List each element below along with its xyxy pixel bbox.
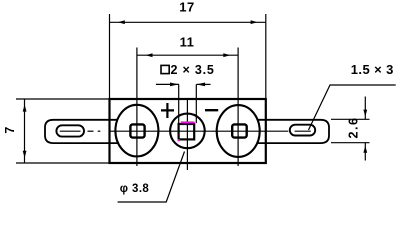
left slot bbox=[56, 125, 84, 136]
hole circle right bbox=[217, 105, 260, 157]
left tab bbox=[45, 120, 118, 143]
magenta highlight dot bbox=[178, 139, 180, 141]
dim line 2.6 lower segment bbox=[364, 143, 366, 161]
svg-text:φ 3.8: φ 3.8 bbox=[120, 183, 150, 195]
vertical centerline right hole / ext line 11 bbox=[237, 48, 239, 167]
magenta highlight line bbox=[181, 121, 195, 123]
ext line 2.6 bottom bbox=[331, 142, 370, 144]
arrow 17 left bbox=[118, 20, 125, 24]
hole circle middle bbox=[170, 114, 205, 149]
ext line 2.6 top bbox=[331, 118, 370, 120]
ext line 7 top bbox=[16, 98, 110, 100]
vertical centerline left hole / ext line 11 bbox=[136, 48, 138, 167]
ext line 17 right bbox=[265, 14, 267, 99]
right tab bbox=[257, 120, 329, 143]
hole circle left bbox=[115, 105, 158, 157]
square symbol bbox=[161, 65, 169, 73]
arrow 11 right bbox=[223, 53, 230, 57]
arrow 7 top bbox=[23, 104, 27, 111]
ext line 7 bottom bbox=[16, 162, 110, 164]
leader phi 3.8 underline bbox=[118, 152, 185, 203]
minus sign bbox=[205, 109, 218, 111]
vertical centerline middle hole bbox=[186, 99, 188, 170]
svg-text:17: 17 bbox=[179, 0, 194, 15]
right slot bbox=[290, 125, 315, 136]
ext line square left edge bbox=[178, 84, 180, 123]
leader stub right for square dim bbox=[196, 83, 210, 85]
arrow 2.6 top bbox=[363, 110, 367, 117]
ext line square right edge bbox=[195, 84, 197, 123]
ext line 17 left bbox=[109, 14, 111, 99]
arrow 2.6 bottom bbox=[363, 146, 367, 153]
dim line 17 bbox=[110, 21, 266, 23]
body rectangle bbox=[110, 99, 266, 163]
leader stub left for square dim bbox=[156, 83, 179, 85]
horizontal centerline bbox=[60, 130, 81, 132]
arrow 17 right bbox=[251, 20, 258, 24]
arrow 11 left bbox=[146, 53, 153, 57]
dim line 11 bbox=[137, 54, 238, 56]
svg-text:2 × 3.5: 2 × 3.5 bbox=[171, 63, 215, 77]
leader 1.5x3 bbox=[309, 85, 396, 130]
svg-text:7: 7 bbox=[3, 127, 17, 134]
arrow 7 bottom bbox=[23, 151, 27, 158]
dim line 2.6 upper segment bbox=[364, 97, 366, 120]
plus sign bbox=[161, 103, 174, 118]
svg-text:11: 11 bbox=[180, 35, 195, 50]
square hole middle bbox=[179, 124, 195, 139]
svg-text:1.5 × 3: 1.5 × 3 bbox=[351, 62, 394, 77]
square hole left bbox=[130, 124, 144, 137]
dim line 7 bbox=[24, 99, 26, 163]
square hole right bbox=[232, 124, 247, 137]
